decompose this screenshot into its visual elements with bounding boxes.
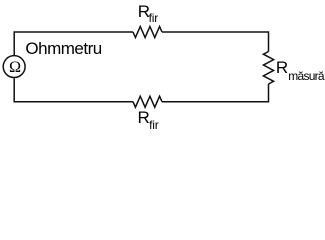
- label R masura: [276, 59, 288, 76]
- label fir bottom subscript: [149, 119, 158, 131]
- resistor R3 (Rfir bottom): [133, 96, 162, 107]
- resistor R1 (Rfir top): [133, 27, 162, 38]
- ohmmeter omega symbol: [9, 59, 21, 75]
- label fir top subscript: [149, 12, 158, 24]
- label Ohmmetru: [25, 40, 101, 57]
- wire bottom-right corner: [162, 84, 269, 102]
- wire top resistor to top-right corner: [162, 32, 269, 52]
- wire bottom resistor to bottom-left corner: [14, 78, 133, 101]
- ohmmeter M1 circle: [3, 56, 25, 78]
- label R top: [138, 3, 150, 20]
- label R bottom: [138, 109, 150, 126]
- label masura subscript: [288, 70, 324, 82]
- wire top-left corner to top resistor: [14, 32, 133, 55]
- resistor R2 (Rmasura right): [263, 52, 273, 85]
